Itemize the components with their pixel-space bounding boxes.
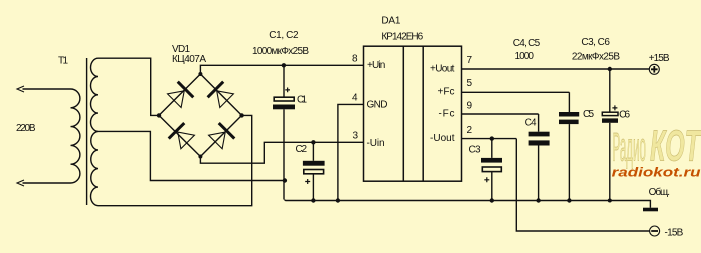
- node bridge left vertex: [157, 113, 161, 117]
- svg-text:КЦ407А: КЦ407А: [172, 54, 206, 65]
- wire secondary center tap down: [98, 131, 285, 180]
- svg-text:C1, C2: C1, C2: [269, 30, 299, 41]
- svg-text:2: 2: [467, 125, 473, 136]
- svg-text:-Fc: -Fc: [439, 109, 455, 120]
- secondary winding 2: [91, 131, 98, 205]
- node C6 bottom junction: [608, 199, 612, 203]
- secondary winding 1: [91, 58, 99, 131]
- capacitor C1: [273, 65, 295, 199]
- svg-text:22мкФх25В: 22мкФх25В: [572, 52, 620, 63]
- svg-text:Общ.: Общ.: [649, 186, 670, 198]
- svg-text:DA1: DA1: [381, 16, 400, 27]
- primary top lead wire: [23, 88, 71, 90]
- wire bridge plus output to pin 8: [200, 65, 364, 74]
- op-amp regulator DA1 box: [364, 46, 462, 181]
- node bridge right vertex: [239, 113, 243, 117]
- svg-text:+Uout: +Uout: [430, 63, 455, 74]
- node GND rail junction: [336, 198, 340, 202]
- svg-text:3: 3: [353, 131, 359, 142]
- node C2 top junction: [311, 140, 315, 144]
- svg-text:GND: GND: [367, 100, 388, 111]
- svg-text:+15В: +15В: [649, 53, 670, 64]
- bridge rectifier VD1 diamond: [159, 74, 242, 157]
- svg-text:КОТ: КОТ: [650, 122, 701, 171]
- svg-text:C3, C6: C3, C6: [581, 37, 610, 48]
- transformer core: [86, 58, 88, 205]
- node C1 top junction: [282, 63, 286, 67]
- svg-text:-Uout: -Uout: [430, 133, 455, 144]
- svg-text:+Fc: +Fc: [438, 87, 455, 98]
- svg-text:7: 7: [467, 55, 473, 66]
- wire pin 7 +Uout to +15V terminal: [462, 68, 650, 70]
- capacitor C3: [481, 139, 502, 201]
- svg-text:C1: C1: [297, 94, 307, 105]
- svg-text:+Uin: +Uin: [367, 60, 385, 71]
- diode VD1.1 (lower-left to top): [167, 82, 194, 109]
- diode VD1.2 (right to top): [208, 82, 235, 109]
- svg-text:C3: C3: [469, 144, 481, 155]
- svg-text:5: 5: [467, 78, 473, 89]
- svg-text:КР142ЕН6: КР142ЕН6: [381, 32, 423, 43]
- svg-text:1000мкФх25В: 1000мкФх25В: [252, 46, 309, 57]
- svg-text:4: 4: [352, 93, 358, 104]
- svg-text:C6: C6: [619, 110, 630, 121]
- svg-text:C5: C5: [583, 109, 594, 120]
- primary top lead arrowhead: [17, 86, 24, 92]
- -15V terminal: [650, 226, 660, 236]
- svg-text:Радио: Радио: [613, 126, 647, 170]
- node C4 bottom junction: [536, 198, 540, 202]
- svg-text:-Uin: -Uin: [367, 138, 385, 149]
- wire pin 2 -Uout: [462, 138, 517, 140]
- capacitor C6: [602, 69, 618, 201]
- watermark Radio KOT: [613, 122, 701, 171]
- diode VD1.3 (bottom to left): [169, 123, 196, 150]
- ground terminal bar: [643, 208, 658, 212]
- svg-text:220В: 220В: [16, 123, 36, 134]
- svg-text:1000: 1000: [515, 51, 535, 62]
- wire secondary bottom lead to bridge AC2: [98, 115, 252, 205]
- wire -Uout down to -15V terminal: [516, 139, 649, 231]
- node C3 top junction: [490, 136, 494, 140]
- capacitor C2: [303, 142, 325, 200]
- wire bridge minus output to pin 3: [200, 142, 364, 163]
- node C6 top junction: [608, 67, 612, 71]
- wire GND pin4 to rail: [338, 104, 364, 200]
- node C5 bottom junction: [567, 198, 571, 202]
- svg-text:9: 9: [467, 101, 473, 112]
- wire secondary top lead to bridge AC1: [98, 58, 159, 115]
- node bridge top vertex: [198, 72, 202, 76]
- node bridge bottom vertex: [198, 155, 202, 159]
- primary bottom lead wire: [23, 182, 71, 184]
- node C3 bottom junction: [490, 198, 494, 202]
- node C1 center-tap junction: [283, 178, 287, 182]
- svg-text:-15В: -15В: [665, 227, 684, 238]
- capacitor C4: [529, 114, 550, 201]
- node C2 bottom junction: [311, 198, 315, 202]
- ground rail wire: [285, 200, 651, 208]
- diode VD1.4 (bottom to right): [208, 123, 235, 150]
- wire pin 9 -Fc to C4: [462, 113, 539, 115]
- svg-text:radiokot.ru: radiokot.ru: [612, 165, 701, 180]
- svg-text:8: 8: [352, 54, 358, 65]
- svg-text:T1: T1: [58, 56, 68, 67]
- wire pin 5 +Fc to C5: [462, 91, 570, 93]
- transformer primary winding: [71, 89, 80, 183]
- +15V terminal: [649, 64, 659, 74]
- svg-text:C4, C5: C4, C5: [513, 38, 541, 49]
- capacitor C5: [559, 92, 579, 200]
- svg-text:C2: C2: [296, 144, 308, 155]
- primary bottom lead arrowhead: [17, 180, 24, 186]
- svg-text:C4: C4: [525, 118, 537, 129]
